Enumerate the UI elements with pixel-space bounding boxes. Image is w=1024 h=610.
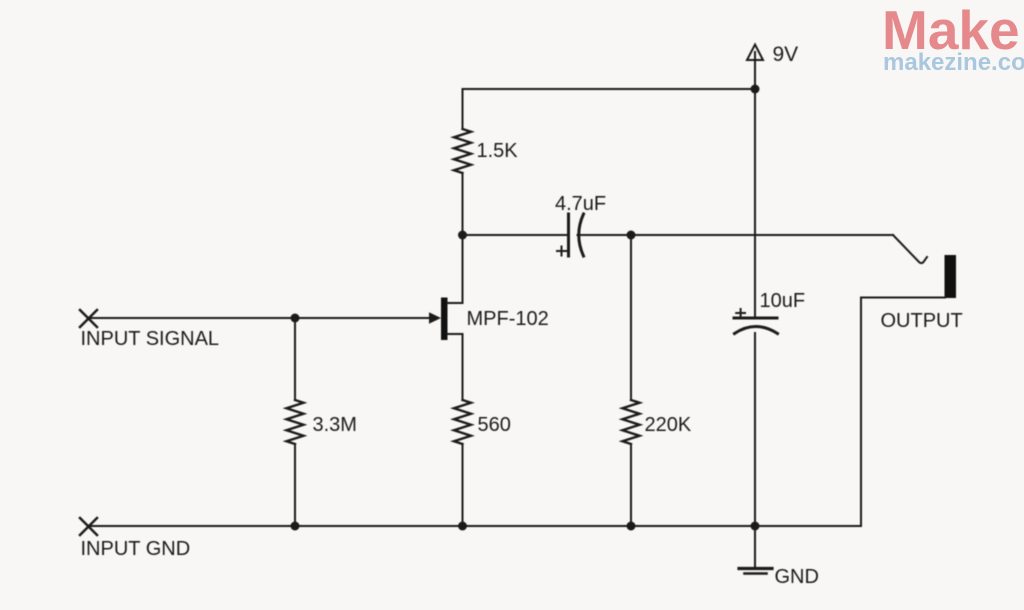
- wire: output line crossing 9V rail: [631, 234, 893, 236]
- wire: jack sleeve return to ground: [861, 298, 945, 527]
- svg-text:makezine.com: makezine.com: [883, 49, 1024, 76]
- wire: 9V stub: [754, 52, 756, 89]
- wire: input signal line: [89, 317, 432, 319]
- wire: 220K bottom lead: [630, 444, 632, 526]
- svg-text:OUTPUT: OUTPUT: [881, 310, 963, 332]
- transistor Q1 gate bar: [441, 298, 448, 341]
- wire: 10uF to bottom rail: [754, 333, 756, 526]
- wire: source stub: [448, 334, 463, 400]
- wire: C1 to 220K node: [578, 234, 632, 236]
- output jack contact bar: [945, 255, 957, 298]
- resistor R3 560: [454, 400, 471, 444]
- capacitor C1 4.7uF positive plate: [567, 214, 570, 256]
- capacitor C2 10uF negative curved plate: [735, 327, 778, 334]
- wire: jack tip contact diagonal: [893, 235, 927, 263]
- wire: 220K top lead: [630, 235, 632, 400]
- svg-text:10uF: 10uF: [760, 290, 806, 312]
- wire: 3.3M bottom lead: [294, 444, 296, 526]
- svg-text:INPUT SIGNAL: INPUT SIGNAL: [81, 328, 220, 350]
- wire: 1.5K top lead: [462, 89, 464, 129]
- node: 220K bottom junction: [627, 522, 636, 531]
- plus sign for C2: [736, 309, 745, 317]
- node: 560 bottom junction: [458, 522, 467, 531]
- ground symbol bar 2: [745, 572, 767, 575]
- node: gate / 3.3M junction: [291, 314, 300, 323]
- node: top rail / 9V junction: [751, 85, 760, 94]
- ground symbol bar 1: [739, 567, 772, 570]
- capacitor C1 4.7uF negative curved plate: [579, 214, 584, 256]
- X terminal: input gnd: [80, 518, 97, 535]
- svg-text:1.5K: 1.5K: [477, 140, 519, 162]
- resistor R1 1.5K: [454, 129, 471, 173]
- resistor R2 3.3M: [287, 400, 304, 444]
- node: drain / C1 junction: [458, 231, 467, 240]
- svg-text:4.7uF: 4.7uF: [555, 193, 606, 215]
- wire: drain stub: [448, 236, 463, 303]
- node: 3.3M bottom junction: [291, 522, 300, 531]
- wire: 560 bottom lead: [462, 444, 464, 526]
- resistor R4 220K: [623, 400, 640, 444]
- X terminal: input signal: [80, 310, 97, 327]
- wire: ground stub: [754, 526, 756, 567]
- svg-text:560: 560: [478, 414, 511, 436]
- 9V supply triangle: [747, 45, 763, 61]
- wire: drain node to C1 left plate: [463, 234, 568, 236]
- svg-text:3.3M: 3.3M: [313, 414, 357, 436]
- wire: top rail from 1.5K to 9V node: [463, 88, 756, 90]
- wire: 3.3M top lead: [294, 318, 296, 400]
- svg-text:9V: 9V: [773, 43, 799, 66]
- svg-text:INPUT GND: INPUT GND: [81, 538, 191, 560]
- svg-text:GND: GND: [775, 566, 819, 588]
- wire: bottom ground rail: [89, 525, 862, 527]
- svg-text:220K: 220K: [645, 414, 692, 436]
- plus sign for C1: [557, 247, 566, 256]
- node: C1 / 220K junction: [627, 231, 636, 240]
- capacitor C2 10uF positive plate: [734, 317, 777, 320]
- arrowhead into JFET gate: [429, 312, 441, 324]
- wire: 1.5K bottom lead: [462, 173, 464, 235]
- node: ground junction: [751, 522, 760, 531]
- svg-text:MPF-102: MPF-102: [467, 308, 549, 330]
- wire: 9V rail down to 10uF: [754, 89, 756, 317]
